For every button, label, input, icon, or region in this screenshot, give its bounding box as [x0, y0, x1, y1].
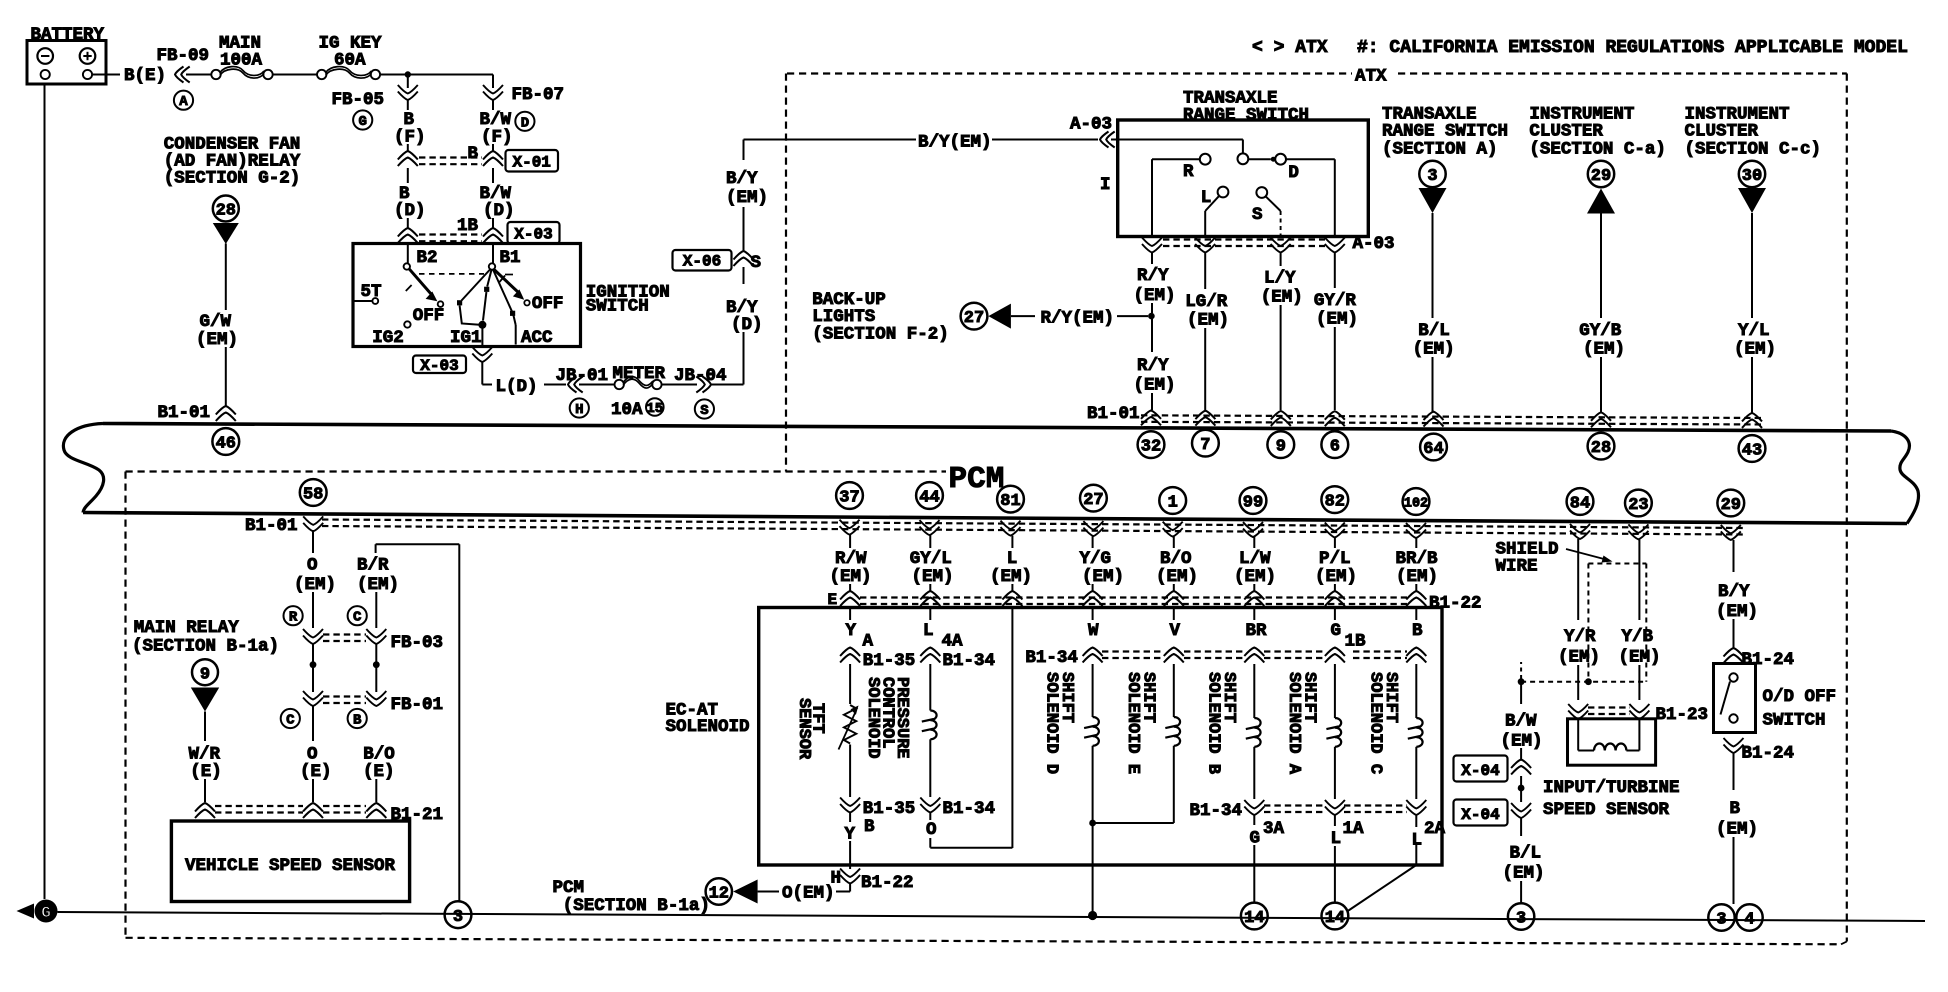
svg-text:B: B: [1412, 621, 1423, 641]
svg-text:L/Y: L/Y: [1264, 269, 1296, 289]
svg-text:G: G: [358, 114, 366, 130]
svg-text:L: L: [1201, 188, 1212, 208]
svg-text:FB-09: FB-09: [157, 46, 210, 66]
svg-text:(D): (D): [394, 201, 426, 221]
svg-text:B1-01: B1-01: [245, 516, 298, 536]
svg-text:SENSOR: SENSOR: [794, 698, 813, 760]
svg-text:(EM): (EM): [1187, 311, 1229, 331]
svg-text:FB-07: FB-07: [512, 85, 565, 105]
svg-text:VEHICLE SPEED SENSOR: VEHICLE SPEED SENSOR: [185, 856, 396, 876]
svg-text:(EM): (EM): [357, 575, 399, 595]
svg-text:7: 7: [1200, 436, 1210, 455]
svg-text:(SECTION C-a): (SECTION C-a): [1529, 140, 1666, 160]
svg-text:(EM): (EM): [196, 330, 238, 350]
svg-text:B1-35: B1-35: [863, 651, 916, 671]
svg-text:32: 32: [1141, 438, 1161, 457]
svg-text:CLUSTER: CLUSTER: [1685, 122, 1759, 142]
svg-text:IG2: IG2: [372, 328, 404, 348]
svg-text:15: 15: [646, 401, 663, 417]
svg-text:G: G: [1331, 621, 1342, 641]
svg-text:(E): (E): [300, 762, 332, 782]
svg-text:B/L: B/L: [1510, 844, 1542, 864]
svg-text:B/L: B/L: [1418, 321, 1450, 341]
svg-text:O(EM): O(EM): [782, 884, 835, 904]
svg-text:(EM): (EM): [1716, 820, 1758, 840]
svg-text:X-03: X-03: [420, 357, 458, 375]
svg-text:SOLENOID: SOLENOID: [666, 717, 750, 737]
svg-text:L/W: L/W: [1239, 549, 1271, 569]
svg-text:(EM): (EM): [1261, 288, 1303, 308]
svg-text:(EM): (EM): [1134, 376, 1176, 396]
svg-text:R/W: R/W: [835, 549, 867, 569]
svg-text:INPUT/TURBINE: INPUT/TURBINE: [1543, 778, 1680, 798]
svg-text:S: S: [751, 253, 762, 273]
svg-text:B2: B2: [417, 248, 438, 268]
svg-text:(EM): (EM): [1583, 340, 1625, 360]
svg-text:E: E: [828, 591, 838, 609]
svg-text:(EM): (EM): [1082, 567, 1124, 587]
svg-text:37: 37: [839, 489, 859, 508]
svg-text:ACC: ACC: [521, 328, 553, 348]
svg-text:3A: 3A: [1263, 819, 1285, 839]
svg-text:SOLENOID B: SOLENOID B: [1203, 672, 1222, 774]
svg-text:PCM: PCM: [949, 462, 1005, 497]
svg-text:X-06: X-06: [683, 253, 721, 271]
svg-text:FB-05: FB-05: [332, 90, 385, 110]
svg-text:(SECTION A): (SECTION A): [1382, 140, 1498, 160]
svg-text:X-01: X-01: [512, 154, 550, 172]
svg-text:SOLENOID C: SOLENOID C: [1365, 672, 1384, 774]
svg-text:B: B: [1730, 799, 1741, 819]
svg-text:3: 3: [453, 908, 463, 927]
svg-text:3: 3: [1427, 167, 1437, 186]
svg-text:Y/G: Y/G: [1080, 549, 1112, 569]
svg-text:C: C: [286, 713, 295, 729]
svg-text:B/Y: B/Y: [1718, 582, 1750, 602]
svg-text:(SECTION B-1a): (SECTION B-1a): [132, 637, 279, 657]
svg-text:(F): (F): [481, 128, 513, 148]
svg-text:9: 9: [200, 665, 210, 684]
svg-text:SWITCH: SWITCH: [586, 297, 649, 317]
svg-text:(F): (F): [394, 128, 426, 148]
svg-text:B1-34: B1-34: [943, 799, 996, 819]
svg-text:(SECTION G-2): (SECTION G-2): [164, 169, 301, 189]
svg-text:46: 46: [216, 435, 236, 454]
svg-text:W: W: [1088, 621, 1099, 641]
svg-text:(SECTION B-1a): (SECTION B-1a): [563, 896, 710, 916]
svg-text:6: 6: [1330, 438, 1340, 457]
svg-text:ATX: ATX: [1355, 67, 1387, 87]
svg-text:R: R: [289, 610, 298, 626]
svg-text:OFF: OFF: [413, 306, 445, 326]
svg-text:B/Y: B/Y: [726, 169, 758, 189]
svg-text:RANGE SWITCH: RANGE SWITCH: [1382, 122, 1508, 142]
svg-text:100A: 100A: [220, 51, 263, 71]
svg-text:B1-34: B1-34: [1190, 801, 1243, 821]
svg-text:O: O: [307, 556, 318, 576]
svg-text:Y/B: Y/B: [1622, 627, 1654, 647]
svg-text:C: C: [353, 610, 362, 626]
svg-text:(EM): (EM): [726, 188, 768, 208]
svg-text:Y: Y: [846, 621, 857, 641]
svg-text:2A: 2A: [1424, 819, 1446, 839]
svg-text:X-03: X-03: [514, 226, 552, 244]
svg-text:B1-22: B1-22: [1429, 594, 1482, 614]
svg-text:R: R: [1183, 162, 1194, 182]
svg-text:I: I: [1100, 175, 1111, 195]
svg-text:S: S: [700, 403, 708, 419]
svg-text:(EM): (EM): [1413, 340, 1455, 360]
svg-text:10A: 10A: [611, 400, 643, 420]
svg-text:PCM: PCM: [553, 878, 585, 898]
svg-text:(E): (E): [363, 762, 395, 782]
svg-text:B/Y(EM): B/Y(EM): [918, 133, 992, 153]
svg-text:30: 30: [1742, 167, 1762, 186]
svg-text:1A: 1A: [1343, 819, 1365, 839]
svg-text:B1-34: B1-34: [1025, 648, 1078, 668]
svg-text:SOLENOID D: SOLENOID D: [1042, 672, 1061, 774]
svg-text:METER: METER: [613, 364, 666, 384]
svg-text:(SECTION C-c): (SECTION C-c): [1685, 140, 1822, 160]
svg-text:B1-01: B1-01: [158, 403, 211, 423]
svg-text:FB-01: FB-01: [391, 695, 444, 715]
svg-text:#: CALIFORNIA EMISSION REGULAT: #: CALIFORNIA EMISSION REGULATIONS APPLI…: [1357, 38, 1908, 58]
svg-text:SWITCH: SWITCH: [1763, 711, 1826, 731]
svg-text:60A: 60A: [334, 51, 366, 71]
svg-text:G/W: G/W: [200, 312, 232, 332]
svg-text:64: 64: [1423, 440, 1443, 459]
svg-text:58: 58: [303, 486, 323, 505]
svg-text:A-03: A-03: [1070, 115, 1112, 135]
svg-text:27: 27: [1083, 491, 1103, 510]
svg-text:14: 14: [1325, 909, 1345, 928]
svg-text:(EM): (EM): [1619, 648, 1661, 668]
svg-text:P/L: P/L: [1319, 549, 1351, 569]
svg-text:(EM): (EM): [1503, 864, 1545, 884]
svg-text:B1-35: B1-35: [863, 799, 916, 819]
svg-text:B/W: B/W: [1505, 712, 1537, 732]
svg-text:B1-01: B1-01: [1087, 404, 1140, 424]
svg-text:JB-01: JB-01: [556, 366, 609, 386]
svg-text:(D): (D): [731, 315, 763, 335]
svg-text:(EM): (EM): [1558, 648, 1600, 668]
svg-text:(EM): (EM): [1316, 310, 1358, 330]
svg-text:B/O: B/O: [1160, 549, 1192, 569]
svg-text:GY/B: GY/B: [1579, 321, 1622, 341]
svg-text:OFF: OFF: [532, 294, 564, 314]
svg-text:4A: 4A: [942, 632, 964, 652]
svg-text:B: B: [353, 713, 362, 729]
svg-text:(EM): (EM): [1134, 286, 1176, 306]
svg-text:29: 29: [1591, 167, 1611, 186]
svg-text:(EM): (EM): [912, 567, 954, 587]
svg-text:14: 14: [1244, 909, 1264, 928]
svg-text:84: 84: [1570, 495, 1590, 514]
svg-text:9: 9: [1276, 438, 1286, 457]
svg-text:D: D: [521, 115, 529, 131]
svg-text:27: 27: [964, 309, 984, 328]
svg-text:L: L: [923, 621, 934, 641]
svg-text:BR: BR: [1246, 621, 1268, 641]
svg-text:R/Y: R/Y: [1137, 356, 1169, 376]
svg-text:< > ATX: < > ATX: [1252, 38, 1328, 58]
svg-text:RANGE SWITCH: RANGE SWITCH: [1183, 106, 1309, 126]
svg-text:L: L: [1007, 549, 1018, 569]
svg-text:SPEED SENSOR: SPEED SENSOR: [1543, 800, 1670, 820]
svg-text:B(E): B(E): [124, 66, 166, 86]
svg-text:23: 23: [1628, 496, 1648, 515]
svg-text:BR/B: BR/B: [1396, 549, 1439, 569]
svg-text:SOLENOID E: SOLENOID E: [1123, 672, 1142, 774]
svg-text:1B: 1B: [457, 216, 479, 236]
svg-text:A: A: [863, 632, 874, 652]
svg-text:(D): (D): [483, 201, 515, 221]
svg-text:1: 1: [1168, 494, 1178, 513]
svg-text:GY/R: GY/R: [1314, 291, 1357, 311]
svg-text:MAIN RELAY: MAIN RELAY: [134, 618, 240, 638]
svg-text:D: D: [1288, 163, 1299, 183]
svg-text:(EM): (EM): [294, 575, 336, 595]
svg-text:82: 82: [1325, 493, 1345, 512]
svg-text:FB-03: FB-03: [391, 633, 444, 653]
svg-text:43: 43: [1742, 442, 1762, 461]
svg-text:CLUSTER: CLUSTER: [1529, 122, 1603, 142]
svg-text:G: G: [41, 904, 51, 922]
svg-text:B: B: [468, 144, 479, 164]
svg-text:12: 12: [709, 885, 729, 904]
svg-text:A-03: A-03: [1353, 234, 1395, 254]
svg-text:O/D OFF: O/D OFF: [1763, 687, 1837, 707]
svg-text:B1-24: B1-24: [1742, 744, 1795, 764]
svg-text:O: O: [926, 820, 937, 840]
svg-text:B: B: [864, 817, 875, 837]
svg-text:(SECTION F-2): (SECTION F-2): [812, 325, 949, 345]
svg-text:29: 29: [1721, 496, 1741, 515]
svg-text:(EM): (EM): [1156, 567, 1198, 587]
svg-text:X-04: X-04: [1461, 806, 1500, 824]
svg-text:(E): (E): [190, 762, 222, 782]
svg-text:Y/R: Y/R: [1564, 627, 1596, 647]
svg-text:28: 28: [1591, 439, 1611, 458]
svg-text:B1-24: B1-24: [1742, 650, 1795, 670]
svg-text:(EM): (EM): [1716, 602, 1758, 622]
svg-text:L(D): L(D): [496, 377, 538, 397]
svg-text:99: 99: [1243, 494, 1263, 513]
svg-text:LG/R: LG/R: [1185, 292, 1228, 312]
svg-text:S: S: [1252, 205, 1263, 225]
svg-text:B1-22: B1-22: [861, 873, 914, 893]
svg-text:V: V: [1170, 621, 1181, 641]
svg-text:SOLENOID: SOLENOID: [863, 677, 882, 759]
svg-text:1B: 1B: [1345, 632, 1367, 652]
svg-text:WIRE: WIRE: [1496, 557, 1538, 577]
svg-text:R/Y: R/Y: [1137, 266, 1169, 286]
svg-text:(EM): (EM): [990, 567, 1032, 587]
svg-text:IG1: IG1: [450, 328, 482, 348]
svg-text:(EM): (EM): [1315, 567, 1357, 587]
svg-text:SOLENOID A: SOLENOID A: [1284, 672, 1303, 775]
svg-text:R/Y(EM): R/Y(EM): [1041, 309, 1115, 329]
svg-text:B/R: B/R: [357, 556, 389, 576]
svg-text:A: A: [179, 94, 188, 110]
svg-text:JB-04: JB-04: [674, 366, 727, 386]
svg-text:X-04: X-04: [1461, 762, 1500, 780]
svg-text:Y/L: Y/L: [1738, 321, 1770, 341]
svg-text:B1-23: B1-23: [1656, 705, 1709, 725]
svg-text:B1: B1: [500, 248, 521, 268]
svg-text:H: H: [575, 402, 583, 418]
svg-text:28: 28: [216, 202, 236, 221]
svg-text:(EM): (EM): [1734, 340, 1776, 360]
svg-text:102: 102: [1404, 496, 1428, 511]
svg-text:B1-34: B1-34: [943, 651, 996, 671]
svg-text:GY/L: GY/L: [910, 549, 952, 569]
svg-text:44: 44: [919, 489, 939, 508]
